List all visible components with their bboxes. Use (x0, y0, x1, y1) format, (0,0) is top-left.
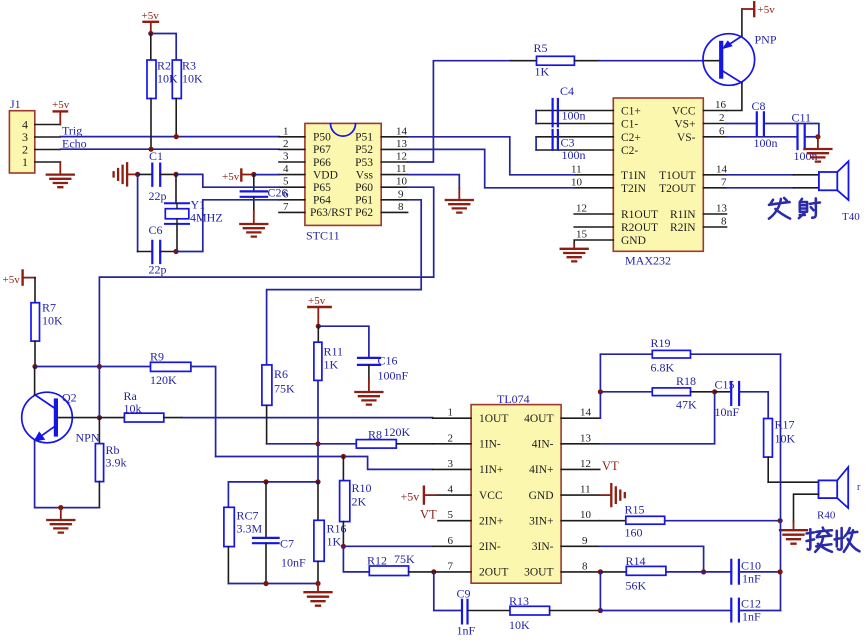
node R10 bottom junction pin6 (341, 544, 346, 549)
svg-text:160: 160 (625, 525, 643, 539)
svg-text:100n: 100n (562, 148, 586, 162)
resistor R3 (157, 59, 203, 99)
chip U-TL074 (471, 392, 561, 583)
svg-text:47K: 47K (676, 398, 697, 412)
resistor R7 (31, 301, 63, 342)
svg-text:R17: R17 (775, 418, 795, 432)
label 接收 (receive) (807, 528, 860, 552)
STC11 left pin stubs 1-7 (279, 137, 305, 213)
node C6 right junction (173, 249, 178, 254)
svg-text:4IN+: 4IN+ (529, 464, 553, 476)
resistor R12 (367, 552, 434, 576)
speaker T40 (819, 161, 860, 223)
capacitor C7 (253, 482, 306, 584)
node R16 top junction (315, 479, 320, 484)
svg-text:NPN: NPN (76, 430, 100, 444)
svg-text:10: 10 (580, 509, 592, 521)
svg-text:14: 14 (716, 164, 728, 176)
wire net P60 vertical (long) (99, 187, 433, 417)
node R2/Echo junction (148, 147, 153, 152)
node R9row/vertical junction (97, 364, 102, 369)
crystal Y1 (165, 174, 223, 251)
node R16 bottom junction (315, 581, 320, 586)
svg-text:R19: R19 (651, 336, 671, 350)
power +5v (above R2/R3) (142, 10, 160, 34)
wire R2 top lead (150, 34, 152, 61)
wire net pin9 to R14/C10 node (600, 546, 704, 571)
node +5v/R11/C16 junction (316, 324, 321, 329)
svg-text:TL074: TL074 (497, 392, 530, 406)
svg-text:4: 4 (448, 484, 454, 496)
svg-text:C1-: C1- (621, 119, 638, 131)
wire R9 row (35, 366, 151, 368)
node base/Ra/Rb junction (97, 415, 102, 420)
svg-text:100nF: 100nF (378, 368, 409, 382)
wire net P51 (pin14 to T1IN) (408, 137, 575, 175)
svg-text:1K: 1K (535, 64, 550, 78)
svg-text:T1IN: T1IN (621, 170, 647, 182)
svg-text:VCC: VCC (672, 106, 696, 118)
TL074 left pin stubs (433, 418, 472, 572)
svg-text:GND: GND (529, 490, 554, 502)
svg-text:T40: T40 (842, 211, 860, 223)
svg-text:T1OUT: T1OUT (659, 170, 695, 182)
svg-text:8: 8 (582, 560, 588, 572)
svg-text:1nF: 1nF (457, 623, 476, 637)
svg-text:C2+: C2+ (621, 132, 641, 144)
svg-text:C1+: C1+ (621, 106, 641, 118)
capacitor C3 (with C2+/C2- loop) (536, 130, 613, 162)
wire T2OUT to speaker T40 (703, 187, 726, 189)
svg-text:P50: P50 (313, 132, 331, 144)
svg-text:R16: R16 (327, 521, 347, 535)
power +5v (TL074 VCC pin4) (401, 487, 438, 504)
resistor R9 (150, 349, 191, 387)
capacitor C8 on VS+ row (703, 99, 777, 150)
svg-text:7: 7 (721, 177, 727, 189)
wire net P61 to R6 (267, 200, 422, 365)
resistor R19 (600, 336, 780, 375)
svg-text:VT: VT (602, 459, 619, 473)
wire C1-left loop down to C6 row (137, 174, 139, 251)
node emitter/Rb/ground junction (58, 505, 63, 510)
svg-text:P65: P65 (313, 182, 331, 194)
svg-text:100n: 100n (794, 149, 818, 163)
TL074 left pin numbers (448, 407, 454, 573)
capacitor C16 (358, 353, 409, 382)
MAX232 pin number labels (571, 99, 728, 241)
svg-text:2: 2 (719, 112, 725, 124)
node R18/C15/pin13 junction (712, 389, 717, 394)
svg-text:8: 8 (398, 201, 404, 213)
wire R17 bottom to speaker R40 top (768, 481, 818, 483)
wire net pin13 to R18/C15 node (600, 392, 715, 444)
resistor R16 (314, 482, 347, 584)
svg-text:VS+: VS+ (674, 119, 695, 131)
svg-text:R6: R6 (274, 367, 288, 381)
svg-text:1OUT: 1OUT (479, 413, 508, 425)
svg-text:16: 16 (715, 99, 727, 111)
MAX232 T1IN/T2IN stubs (574, 175, 613, 188)
svg-text:R1IN: R1IN (670, 209, 696, 221)
svg-text:VS-: VS- (677, 132, 696, 144)
svg-text:12: 12 (396, 151, 407, 163)
resistor RC7 (224, 507, 263, 583)
power +5v (above R7) (3, 271, 36, 287)
svg-text:STC11: STC11 (306, 229, 340, 243)
wire +5v to R7 (34, 278, 36, 303)
svg-text:1: 1 (22, 155, 28, 169)
J1 pin stubs (35, 125, 61, 163)
wire right vertical (R19 to C12) (780, 354, 782, 610)
STC11 left pin numbers (283, 125, 289, 213)
TL074 right pin numbers (580, 407, 592, 573)
svg-text:2OUT: 2OUT (479, 567, 508, 579)
resistor R14 (600, 554, 666, 593)
svg-text:1nF: 1nF (742, 571, 761, 585)
svg-text:13: 13 (580, 432, 592, 444)
node R14/C10/pin9 junction (701, 569, 706, 574)
STC11 right pin stubs 14-8 (381, 137, 407, 213)
svg-text:8: 8 (721, 216, 727, 228)
svg-text:VDD: VDD (313, 169, 338, 181)
ground (Vss) (446, 188, 473, 213)
svg-text:7: 7 (283, 201, 289, 213)
node C10/right-vertical junction (778, 569, 783, 574)
svg-text:3OUT: 3OUT (524, 567, 553, 579)
svg-text:P66: P66 (313, 157, 331, 169)
op-amp/mcu U-STC11 (305, 123, 381, 242)
svg-text:1K: 1K (324, 358, 339, 372)
svg-text:10K: 10K (42, 314, 63, 328)
svg-text:C9: C9 (457, 586, 471, 600)
MAX232 R1OUT/R2OUT stubs (574, 214, 613, 227)
svg-text:C12: C12 (741, 596, 761, 610)
ground (MAX232 GND) (561, 244, 588, 261)
power +5v (above R11) (308, 295, 331, 326)
capacitor C11 on VS- row (703, 110, 818, 163)
svg-text:75K: 75K (394, 552, 415, 566)
wire T1OUT to speaker T40 (703, 174, 726, 176)
svg-text:P63/RST: P63/RST (310, 207, 352, 219)
svg-text:1: 1 (448, 407, 454, 419)
svg-text:10: 10 (396, 176, 408, 188)
capacitor C4 (with C1+/C1- loop) (536, 84, 613, 126)
svg-text:5: 5 (448, 509, 454, 521)
wire net 4OUT up to R19 (599, 354, 602, 418)
wire net pin3 row (jog) (216, 457, 433, 470)
ground (right of C11) (804, 137, 831, 162)
wire speaker R40 lower lead to ground (794, 494, 819, 521)
node VDD junction (251, 172, 256, 177)
resistor R6 (262, 365, 295, 444)
ground (sideways, TL074 GND pin11) (600, 484, 625, 506)
svg-text:+5v: +5v (401, 490, 420, 504)
svg-text:C4: C4 (560, 84, 574, 98)
svg-text:+5v: +5v (308, 295, 326, 307)
wire net P53 to R5 (pin12 up) (408, 61, 511, 162)
wire R11-R16 vertical segment (317, 444, 319, 482)
svg-text:+5v: +5v (222, 171, 240, 183)
STC11 right pin numbers (396, 125, 408, 213)
svg-text:PNP: PNP (755, 33, 777, 47)
power +5v (VDD pin4) (222, 170, 254, 184)
wire +5v to R3 top (151, 34, 176, 61)
svg-text:2IN-: 2IN- (479, 541, 501, 553)
svg-text:12: 12 (580, 458, 591, 470)
capacitor C6 (138, 223, 176, 276)
svg-text:R5: R5 (534, 41, 548, 55)
svg-text:C10: C10 (741, 558, 761, 572)
svg-text:+5v: +5v (142, 10, 160, 22)
resistor Rb (95, 418, 126, 508)
chip U-MAX232 (613, 98, 703, 268)
resistor R10 (340, 457, 372, 547)
svg-text:Q2: Q2 (62, 391, 77, 405)
svg-text:10K: 10K (509, 618, 530, 632)
svg-text:P61: P61 (355, 195, 373, 207)
svg-text:1K: 1K (327, 534, 342, 548)
resistor Ra (99, 389, 182, 422)
ground (under C26) (240, 211, 267, 237)
wire RC7/C7 top row (228, 482, 318, 507)
svg-text:R1OUT: R1OUT (621, 209, 658, 221)
svg-text:R18: R18 (676, 374, 696, 388)
svg-text:Echo: Echo (62, 136, 87, 150)
svg-text:1IN+: 1IN+ (479, 464, 503, 476)
wire net Trig (J1.3 to U-STC11.1) (60, 136, 279, 138)
transistor Q-PNP (703, 33, 777, 86)
svg-text:C11: C11 (792, 110, 812, 124)
wire R2 bottom to Echo row (150, 99, 152, 150)
svg-text:120K: 120K (150, 373, 177, 387)
svg-text:10nF: 10nF (281, 556, 306, 570)
svg-text:10K: 10K (157, 72, 178, 86)
svg-text:7: 7 (448, 560, 454, 572)
wire R5 to PNP base (599, 60, 703, 62)
power +5v (J1 pin4) (52, 99, 70, 125)
resistor R13 (509, 594, 600, 632)
svg-text:6.8K: 6.8K (651, 360, 675, 374)
svg-text:R2OUT: R2OUT (621, 222, 658, 234)
svg-text:4IN-: 4IN- (532, 439, 554, 451)
svg-text:2: 2 (448, 432, 454, 444)
svg-text:3.3M: 3.3M (237, 521, 263, 535)
resistor R2 (147, 60, 156, 99)
wire net P52 (pin13 to T2IN) (408, 149, 575, 187)
svg-text:4MHZ: 4MHZ (190, 211, 223, 225)
svg-text:12: 12 (576, 203, 587, 215)
capacitor C12 (600, 596, 780, 623)
svg-text:C2-: C2- (621, 145, 638, 157)
svg-text:13: 13 (716, 203, 728, 215)
ground (under Q2) (47, 508, 74, 533)
svg-text:3IN+: 3IN+ (529, 516, 553, 528)
wire +5v to C16 (318, 326, 369, 358)
svg-text:15: 15 (576, 229, 588, 241)
svg-text:2K: 2K (352, 494, 367, 508)
ground (under R40) (780, 521, 807, 544)
MAX232 R1IN/R2IN stubs (703, 214, 726, 227)
svg-text:6: 6 (448, 535, 454, 547)
wire Q2 collector up (34, 367, 36, 395)
svg-text:14: 14 (580, 407, 592, 419)
capacitor C10 (666, 558, 780, 585)
node R18 left junction (598, 389, 603, 394)
wire net pin10 row to R15 (600, 520, 626, 522)
wire net Vss (pin11 to ground) (408, 175, 460, 189)
wire net Echo (J1.2 to U-STC11.2) (60, 148, 279, 150)
wire R3 bottom to Trig row (175, 99, 177, 137)
node C1 right junction (173, 172, 178, 177)
node C7 top junction (263, 479, 268, 484)
node R8row/R11-R16 junction (315, 441, 320, 446)
svg-text:11: 11 (396, 163, 407, 175)
svg-text:MAX232: MAX232 (625, 254, 671, 268)
svg-text:P67: P67 (313, 144, 331, 156)
svg-text:P53: P53 (355, 157, 373, 169)
capacitor C15 (715, 377, 740, 418)
svg-text:75K: 75K (274, 381, 295, 395)
TL074 right pin stubs (561, 418, 600, 572)
svg-text:2: 2 (283, 138, 289, 150)
wire net R8 row (pin2) (267, 443, 357, 445)
wire VDD junction to pin4 (254, 174, 279, 176)
node R13/3OUT junction (598, 608, 603, 613)
wire R7 bottom to junction (34, 341, 36, 366)
wire 2OUT junction down to C9 row (434, 572, 462, 611)
svg-text:R2: R2 (157, 59, 171, 73)
svg-text:GND: GND (621, 235, 646, 247)
wire R10 junction down to pin7 row (343, 546, 369, 572)
ground (under C16) (355, 379, 382, 405)
svg-text:VT: VT (420, 507, 437, 521)
svg-text:T2OUT: T2OUT (659, 183, 695, 195)
power +5v (PNP emitter) (742, 2, 775, 35)
svg-text:6: 6 (719, 125, 725, 137)
wire R9 right to pin3 jog vertical (191, 367, 216, 457)
ground (bottom middle) (305, 584, 332, 606)
svg-text:+5v: +5v (758, 4, 776, 16)
wire C1 junction to P65 pin5 (jog) (176, 174, 279, 187)
svg-text:R40: R40 (817, 510, 836, 522)
svg-text:Vss: Vss (356, 169, 374, 181)
svg-text:10: 10 (571, 177, 583, 189)
MAX232 GND stub (574, 240, 613, 245)
svg-text:9: 9 (398, 188, 404, 200)
speaker R40 (817, 467, 861, 521)
svg-text:C1: C1 (149, 149, 163, 163)
svg-text:1IN-: 1IN- (479, 439, 501, 451)
svg-text:R11: R11 (324, 344, 344, 358)
wire Q2 base to junction (58, 417, 99, 419)
node 3OUT/R14/R13 junction (598, 569, 603, 574)
wire R11 bottom to R8 row (317, 380, 319, 443)
svg-text:C6: C6 (149, 223, 163, 237)
svg-text:P62: P62 (355, 207, 373, 219)
wire bottom row RC7/C7/R16 (228, 583, 318, 585)
resistor R18 (600, 374, 714, 412)
wire net 1OUT row (Ra to TL074 pin1) (182, 417, 433, 419)
svg-text:100n: 100n (562, 109, 586, 123)
ground (sideways, left of C1) (114, 163, 138, 185)
svg-text:C8: C8 (752, 99, 766, 113)
svg-text:+5v: +5v (52, 99, 70, 111)
wire crystal bottom loop to P64 pin6 (176, 200, 279, 252)
svg-text:10K: 10K (775, 432, 796, 446)
svg-text:4OUT: 4OUT (524, 413, 553, 425)
node pin7/R12/C9 junction (431, 569, 436, 574)
svg-text:3: 3 (448, 458, 454, 470)
svg-text:R15: R15 (625, 502, 645, 516)
svg-text:2IN+: 2IN+ (479, 516, 503, 528)
svg-text:R7: R7 (42, 301, 56, 315)
svg-text:3IN-: 3IN- (532, 541, 554, 553)
svg-text:1: 1 (283, 125, 289, 137)
svg-text:C7: C7 (280, 537, 294, 551)
connector J1 (9, 97, 34, 173)
wire VS+ row to ground corner (764, 124, 819, 137)
svg-text:10K: 10K (182, 72, 203, 86)
capacitor C1 (138, 149, 176, 203)
svg-text:120K: 120K (384, 425, 411, 439)
svg-text:R9: R9 (150, 349, 164, 363)
svg-text:56K: 56K (626, 578, 647, 592)
resistor R15 (625, 502, 665, 539)
svg-text:Trig: Trig (62, 123, 82, 137)
svg-text:J1: J1 (10, 97, 21, 111)
wire 3OUT node down (599, 572, 601, 611)
svg-text:13: 13 (396, 138, 408, 150)
node C7 bottom junction (263, 581, 268, 586)
svg-text:11: 11 (580, 484, 591, 496)
svg-text:P64: P64 (313, 195, 331, 207)
svg-text:P60: P60 (355, 182, 373, 194)
svg-text:11: 11 (571, 164, 582, 176)
label 发射 (transmit) (769, 198, 820, 219)
node R15/right-vertical junction (778, 518, 783, 523)
resistor R5 (511, 41, 600, 79)
MAX232 VCC stub (703, 110, 726, 112)
ground (J1 pin1) (47, 162, 74, 187)
svg-text:R2IN: R2IN (670, 222, 696, 234)
svg-text:100n: 100n (754, 136, 778, 150)
transistor Q2 (22, 391, 100, 445)
wire C15 to R17 top (739, 392, 768, 419)
capacitor C26 (241, 175, 288, 212)
node C1 left junction (135, 172, 140, 177)
wire Q2 emitter down and bottom row (35, 441, 100, 508)
svg-text:10nF: 10nF (715, 405, 740, 419)
node +5v/R2/R3 junction (148, 31, 153, 36)
svg-text:P51: P51 (355, 132, 373, 144)
node C11/ground junction (815, 134, 820, 139)
svg-text:R3: R3 (182, 59, 196, 73)
svg-text:+5v: +5v (3, 274, 21, 286)
node N1 R10 junction (341, 454, 346, 459)
resistor R17 (764, 418, 796, 483)
resistor R11 (314, 342, 343, 380)
resistor R8 (356, 425, 432, 448)
svg-text:P52: P52 (355, 144, 373, 156)
svg-text:3.9k: 3.9k (106, 455, 127, 469)
svg-text:3: 3 (283, 151, 289, 163)
wire R15 to right vertical (665, 520, 780, 522)
svg-text:9: 9 (582, 535, 588, 547)
svg-text:14: 14 (396, 125, 408, 137)
svg-text:4: 4 (283, 163, 289, 175)
svg-text:RC7: RC7 (237, 508, 259, 522)
